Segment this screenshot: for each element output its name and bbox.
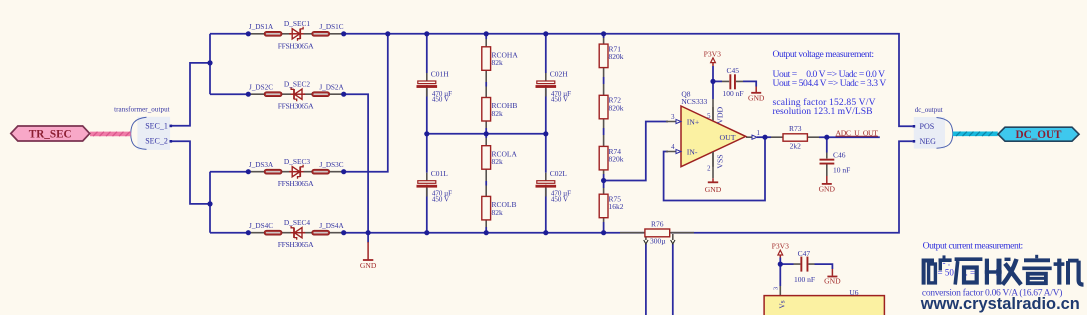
svg-text:Output voltage measurement:: Output voltage measurement:	[773, 49, 875, 60]
svg-text:POS: POS	[920, 122, 935, 131]
svg-text:C01H: C01H	[431, 70, 450, 79]
svg-text:C02L: C02L	[550, 169, 568, 178]
svg-text:300µ: 300µ	[650, 236, 666, 245]
svg-text:J_DS3A: J_DS3A	[249, 161, 274, 169]
svg-text:Uout = 504.4 V => Uadc = 3.3 V: Uout = 504.4 V => Uadc = 3.3 V	[773, 78, 887, 89]
svg-text:1: 1	[757, 130, 760, 137]
svg-text:TR_SEC: TR_SEC	[29, 129, 72, 141]
svg-text:3: 3	[773, 287, 780, 290]
svg-text:82k: 82k	[492, 109, 504, 118]
svg-text:VSS: VSS	[716, 154, 725, 168]
svg-text:NEG: NEG	[920, 137, 937, 146]
svg-text:D_SEC3: D_SEC3	[284, 157, 311, 166]
svg-text:FFSH3065A: FFSH3065A	[278, 179, 314, 188]
svg-text:820k: 820k	[609, 103, 624, 112]
svg-text:100 nF: 100 nF	[723, 89, 744, 98]
svg-text:820k: 820k	[609, 52, 624, 61]
svg-text:D_SEC1: D_SEC1	[284, 19, 311, 28]
svg-text:D_SEC2: D_SEC2	[284, 80, 311, 89]
svg-text:IN-: IN-	[687, 147, 698, 156]
svg-text:FFSH3065A: FFSH3065A	[278, 41, 314, 50]
svg-text:5: 5	[707, 113, 711, 120]
svg-text:DC_OUT: DC_OUT	[1016, 129, 1063, 141]
svg-text:J_DS2C: J_DS2C	[249, 83, 273, 91]
svg-text:R73: R73	[789, 124, 802, 133]
svg-text:82k: 82k	[492, 58, 504, 67]
svg-text:GND: GND	[705, 185, 722, 194]
svg-text:SEC_2: SEC_2	[145, 137, 168, 146]
svg-text:C01L: C01L	[431, 169, 449, 178]
svg-text:IN+: IN+	[687, 117, 700, 126]
svg-text:450 V: 450 V	[432, 96, 449, 104]
svg-text:4: 4	[671, 144, 675, 151]
svg-text:GND: GND	[360, 261, 377, 270]
svg-text:NCS333: NCS333	[681, 97, 707, 106]
svg-text:Vs: Vs	[778, 300, 787, 308]
svg-text:OUT: OUT	[720, 133, 736, 142]
svg-text:FFSH3065A: FFSH3065A	[278, 240, 314, 249]
svg-text:GND: GND	[748, 94, 765, 103]
svg-text:J_DS1C: J_DS1C	[320, 23, 344, 31]
svg-text:transformer_output: transformer_output	[114, 106, 170, 114]
svg-text:3: 3	[671, 114, 675, 121]
svg-text:100 nF: 100 nF	[794, 275, 815, 284]
svg-text:SEC_1: SEC_1	[145, 121, 168, 130]
svg-text:GND: GND	[824, 277, 841, 286]
svg-text:16k2: 16k2	[609, 202, 624, 211]
svg-text:P3V3: P3V3	[704, 49, 722, 58]
svg-text:U6: U6	[849, 288, 858, 297]
svg-text:C46: C46	[833, 151, 846, 160]
svg-text:GND: GND	[819, 184, 836, 193]
svg-text:J_DS3C: J_DS3C	[320, 161, 344, 169]
svg-text:D_SEC4: D_SEC4	[284, 218, 311, 227]
svg-text:www.crystalradio.cn: www.crystalradio.cn	[920, 294, 1080, 313]
svg-text:82k: 82k	[492, 208, 504, 217]
svg-text:FFSH3065A: FFSH3065A	[278, 102, 314, 111]
svg-text:10 nF: 10 nF	[833, 166, 850, 175]
svg-text:Output current measurement:: Output current measurement:	[923, 240, 1024, 251]
svg-text:J_DS4C: J_DS4C	[249, 222, 273, 230]
svg-text:VDD: VDD	[716, 106, 725, 123]
svg-text:J_DS1A: J_DS1A	[249, 23, 274, 31]
svg-text:P3V3: P3V3	[772, 241, 790, 250]
svg-text:C45: C45	[727, 66, 740, 75]
svg-text:J_DS4A: J_DS4A	[319, 222, 344, 230]
svg-text:2: 2	[707, 165, 711, 172]
svg-text:2k2: 2k2	[790, 141, 802, 150]
svg-text:C02H: C02H	[550, 70, 569, 79]
svg-text:820k: 820k	[609, 154, 624, 163]
svg-text:82k: 82k	[492, 157, 504, 166]
svg-text:resolution 123.1 mV/LSB: resolution 123.1 mV/LSB	[773, 106, 873, 117]
svg-text:R76: R76	[651, 219, 664, 228]
svg-text:450 V: 450 V	[551, 96, 568, 104]
svg-text:450 V: 450 V	[432, 195, 449, 203]
svg-text:dc_output: dc_output	[915, 106, 943, 114]
svg-text:C47: C47	[798, 249, 811, 258]
svg-text:450 V: 450 V	[551, 195, 568, 203]
svg-text:J_DS2A: J_DS2A	[319, 83, 344, 91]
